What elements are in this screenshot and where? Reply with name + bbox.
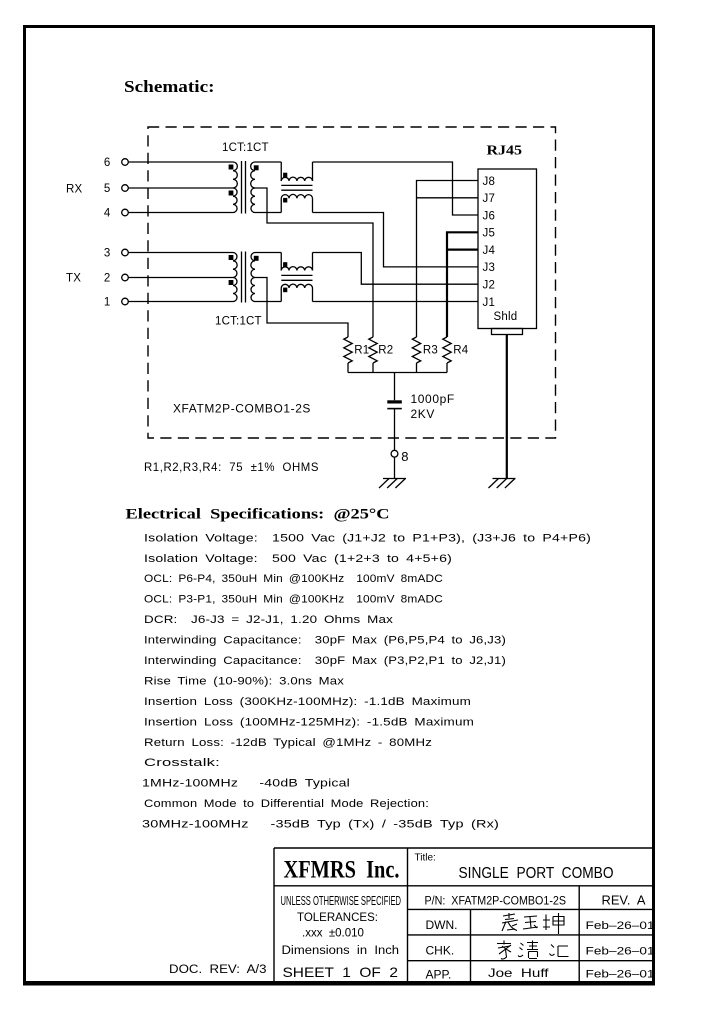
wire T1 secondary top to choke L1 [255,161,281,163]
wire pin 3 to transformer primary [128,252,233,254]
resistor R4 [443,337,451,363]
svg-text:2KV: 2KV [411,407,435,421]
capacitor C1 [387,400,402,403]
svg-text:J3: J3 [483,262,496,274]
pin 2 terminal [122,274,129,281]
checked-by signature (Chinese) [497,941,569,960]
title block frame [274,848,653,981]
svg-text:CHK.: CHK. [426,944,455,958]
svg-text:DCR: J6-J3 = J2-J1, 1.20 Ohms: DCR: J6-J3 = J2-J1, 1.20 Ohms Max [144,614,393,626]
svg-text:J8: J8 [483,176,496,188]
wire J8 J7 junction to R3 [417,181,479,338]
wire pin 6 to transformer primary [128,161,233,163]
transformer T2 (TX) secondary winding [251,253,255,278]
svg-text:Insertion Loss (100MHz-125MHz): Insertion Loss (100MHz-125MHz): -1.5dB M… [144,716,474,728]
svg-text:1000pF: 1000pF [411,392,455,406]
svg-text:RJ45: RJ45 [487,143,523,158]
svg-text:Isolation Voltage: 500 Vac (1: Isolation Voltage: 500 Vac (1+2+3 to 4+5… [144,553,452,565]
wire terminal 8 to chassis ground [394,457,396,478]
svg-text:P/N: XFATM2P-COMBO1-2S: P/N: XFATM2P-COMBO1-2S [425,896,567,908]
svg-text:R1,R2,R3,R4: 75 ±1% OHMS: R1,R2,R3,R4: 75 ±1% OHMS [144,460,319,474]
common-mode choke L1 (RX) core [281,185,312,190]
svg-text:1: 1 [104,296,111,308]
svg-text:1CT:1CT: 1CT:1CT [222,142,269,154]
pin 3 terminal [122,249,129,256]
svg-text:J1: J1 [483,297,496,309]
wire J5 J4 junction to R4 [447,232,478,337]
svg-text:Dimensions in Inch: Dimensions in Inch [282,945,400,957]
svg-text:Isolation Voltage: 1500 Vac (: Isolation Voltage: 1500 Vac (J1+J2 to P1… [144,532,591,544]
svg-text:Interwinding Capacitance: 30p: Interwinding Capacitance: 30pF Max (P3,P… [144,655,506,667]
common-mode choke L2 (TX) core [281,275,312,280]
wire T1 secondary bottom to choke L1 [255,212,281,214]
svg-text:R4: R4 [453,345,469,357]
svg-text:2: 2 [104,272,111,284]
resistor R2 [369,337,377,363]
svg-text:OCL: P6-P4, 350uH Min @100KHz: OCL: P6-P4, 350uH Min @100KHz 100mV 8mAD… [144,573,443,585]
transformer T1 (RX) secondary winding [251,162,255,188]
RJ45 shield tab [492,329,523,335]
svg-text:OCL: P3-P1, 350uH Min @100KHz: OCL: P3-P1, 350uH Min @100KHz 100mV 8mAD… [144,594,443,606]
wire choke L2 bottom output to J1 [313,301,479,303]
wire pin 2 to transformer primary [128,277,233,279]
wire T2 secondary center tap to R1 [255,278,348,338]
svg-text:R3: R3 [423,345,438,357]
svg-text:.xxx ±0.010: .xxx ±0.010 [302,927,364,939]
common-mode choke L2 (TX) top winding [281,253,312,271]
svg-text:APP.: APP. [426,968,452,982]
svg-text:TOLERANCES:: TOLERANCES: [297,912,378,924]
svg-text:1MHz-100MHz -40dB Typical: 1MHz-100MHz -40dB Typical [142,778,350,790]
svg-text:UNLESS OTHERWISE SPECIFIED: UNLESS OTHERWISE SPECIFIED [281,894,402,908]
svg-text:J6: J6 [483,210,496,222]
dashed module outline [148,127,556,438]
resistor R3 [412,337,420,363]
svg-text:R2: R2 [378,345,393,357]
wire pin 4 to transformer primary [128,212,233,214]
svg-text:30MHz-100MHz -35dB Typ (Tx): 30MHz-100MHz -35dB Typ (Tx) / -35dB Typ … [142,819,499,831]
svg-text:Crosstalk:: Crosstalk: [144,757,220,769]
svg-text:J2: J2 [483,280,496,292]
svg-text:Schematic:: Schematic: [124,77,215,96]
svg-text:4: 4 [104,207,111,219]
wire capacitor C1 to terminal 8 [394,409,396,451]
common-mode choke L2 (TX) polarity dots [283,262,287,267]
wire T2 secondary bottom to choke L2 [255,301,281,303]
svg-text:8: 8 [401,449,408,464]
svg-text:3: 3 [104,247,111,259]
wire pin 5 to transformer primary [128,187,233,189]
svg-text:Joe Huff: Joe Huff [488,966,549,980]
svg-text:Feb–26–01: Feb–26–01 [586,969,655,981]
resistor R1 [344,337,352,363]
svg-text:1CT:1CT: 1CT:1CT [215,316,262,328]
wire termination bus [348,372,447,374]
chassis ground (terminal 8) [383,478,406,480]
chassis ground (shield) [493,478,516,480]
svg-text:RX: RX [66,184,83,196]
svg-text:Electrical Specifications: @: Electrical Specifications: @25°C [126,507,390,523]
wire choke L1 bottom output to J3 [313,213,479,267]
wire pin 1 to transformer primary [128,301,233,303]
transformer T1 (RX) primary winding [233,162,237,188]
svg-text:Rise Time (10-90%): 3.0ns Max: Rise Time (10-90%): 3.0ns Max [144,675,344,687]
svg-text:Title:: Title: [415,853,436,864]
pin 6 terminal [122,159,129,166]
wire choke L1 top output to J6 [313,162,479,215]
common-mode choke L2 (TX) bottom winding [281,288,312,302]
svg-text:Feb–26–01: Feb–26–01 [586,946,655,958]
transformer T2 (TX) polarity dots [229,255,234,260]
pin 1 terminal [122,298,129,305]
terminal 8 [391,450,398,457]
common-mode choke L1 (RX) top winding [281,162,312,181]
RJ45 connector body [478,169,537,329]
svg-text:Common Mode to Differential Mo: Common Mode to Differential Mode Rejecti… [144,798,429,810]
svg-text:R1: R1 [354,345,369,357]
svg-text:J5: J5 [483,228,496,240]
svg-text:DWN.: DWN. [426,918,458,932]
svg-text:DOC. REV: A/3: DOC. REV: A/3 [169,964,267,976]
drawn-by signature (Chinese) [502,913,564,934]
svg-text:XFMRS Inc.: XFMRS Inc. [284,857,400,884]
transformer T2 (TX) primary winding [233,253,237,278]
svg-text:Return Loss: -12dB Typical @1M: Return Loss: -12dB Typical @1MHz - 80MHz [144,737,432,749]
common-mode choke L1 (RX) polarity dots [283,173,287,178]
wire shield to chassis ground [506,335,508,479]
transformer T1 (RX) core [242,161,246,214]
wire bus to capacitor C1 [394,373,396,401]
transformer T1 (RX) polarity dots [229,165,234,170]
pin 5 terminal [122,185,129,192]
svg-text:TX: TX [66,273,81,285]
svg-text:REV. A: REV. A [602,893,646,908]
svg-text:SHEET 1 OF 2: SHEET 1 OF 2 [283,964,399,980]
svg-text:6: 6 [104,157,111,169]
svg-text:Insertion Loss (300KHz-100MHz): Insertion Loss (300KHz-100MHz): -1.1dB M… [144,696,471,708]
svg-text:Feb–26–01: Feb–26–01 [586,920,655,932]
wire T1 secondary center tap to R2 [255,188,373,337]
svg-text:J4: J4 [483,245,496,257]
common-mode choke L1 (RX) bottom winding [281,198,312,212]
svg-text:5: 5 [104,183,111,195]
svg-text:XFATM2P-COMBO1-2S: XFATM2P-COMBO1-2S [173,402,311,416]
pin 4 terminal [122,209,129,216]
wire T2 secondary top to choke L2 [255,252,281,254]
wire choke L2 top output to J2 [313,253,479,285]
svg-text:Shld: Shld [494,311,518,323]
svg-text:Interwinding Capacitance: 30p: Interwinding Capacitance: 30pF Max (P6,P… [144,635,506,647]
transformer T2 (TX) core [242,252,246,303]
svg-text:SINGLE PORT COMBO: SINGLE PORT COMBO [459,865,614,882]
svg-text:J7: J7 [483,193,496,205]
